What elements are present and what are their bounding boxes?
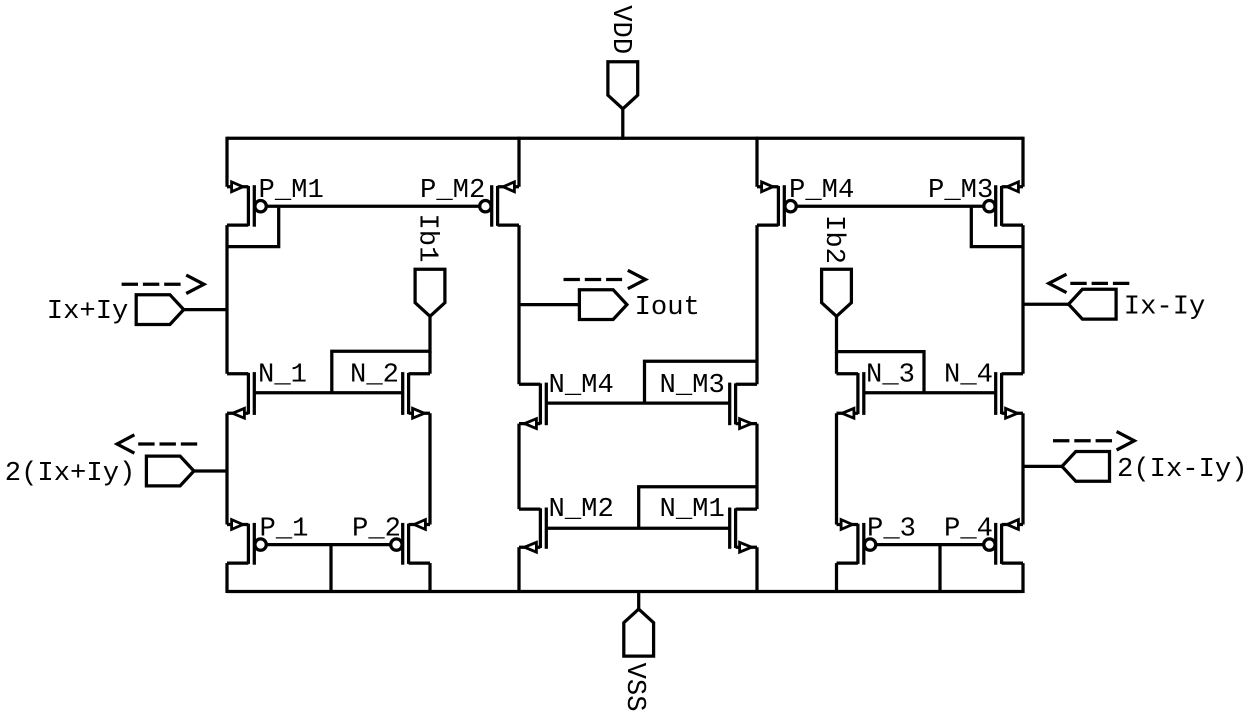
wire gate line P_3 to P_4: [876, 543, 984, 546]
wire Ib2 column: N_3 source to P_3 source: [835, 413, 838, 524]
wire gate line P_M1 to P_M2: [267, 205, 480, 208]
wire P_M1 gate-drain connection: [227, 206, 279, 246]
wire gate line P_1 to P_2: [267, 543, 391, 546]
transistor P_2: [391, 520, 430, 565]
transistor P_3: [837, 520, 876, 565]
svg-text:P_M3: P_M3: [928, 175, 993, 206]
current direction arrow out of 2(Ix+Iy): [117, 435, 200, 453]
transistor N_1: [227, 372, 254, 418]
wire center-right column: N_M3 source to N_M1 drain: [755, 424, 758, 510]
svg-text:Ix-Iy: Ix-Iy: [1124, 292, 1206, 323]
transistor N_4: [996, 372, 1023, 418]
svg-text:2(Ix+Iy): 2(Ix+Iy): [5, 458, 136, 489]
wire gate line N_M4 to N_M3: [546, 401, 729, 404]
wire gate line N_3 to N_4: [864, 391, 996, 394]
transistor N_3: [837, 372, 864, 418]
port Ib2: [822, 269, 852, 316]
wire gate line N_1 to N_2: [254, 391, 402, 394]
svg-text:P_4: P_4: [944, 513, 993, 544]
svg-text:Iout: Iout: [635, 292, 700, 323]
transistor P_4: [984, 520, 1023, 565]
svg-text:N_M4: N_M4: [549, 370, 614, 401]
svg-text:P_M2: P_M2: [420, 175, 485, 206]
port Iout: [579, 290, 627, 320]
port 2(Ix-Iy): [1062, 452, 1110, 482]
svg-text:N_M3: N_M3: [660, 370, 725, 401]
wire Iout port wire: [519, 303, 580, 306]
transistor P_M4: [757, 182, 796, 227]
svg-text:2(Ix-Iy): 2(Ix-Iy): [1117, 454, 1248, 485]
wire Ib2 column: P_3 drain to rail: [835, 563, 838, 593]
svg-text:N_4: N_4: [944, 360, 993, 391]
wire gate line N_M2 to N_M1: [546, 527, 729, 530]
transistor N_2: [403, 372, 430, 418]
svg-text:P_2: P_2: [352, 513, 401, 544]
port Ix-Iy: [1069, 289, 1117, 319]
wire right column: N_4 source to P_4 source (node 2(Ix-Iy)): [1021, 413, 1024, 524]
wire Ix+Iy port wire: [184, 308, 227, 311]
svg-text:VSS: VSS: [619, 663, 650, 712]
svg-text:P_3: P_3: [867, 513, 916, 544]
wire Ib1 stem: [428, 316, 431, 353]
transistor P_M3: [984, 182, 1023, 227]
svg-text:N_3: N_3: [866, 360, 915, 391]
svg-text:N_2: N_2: [350, 360, 399, 391]
wire N_2 gate-drain connection: [332, 351, 430, 392]
wire VSS stem: [637, 590, 640, 609]
wire center-left column: rail to P_M2 source: [517, 137, 520, 187]
current direction arrow into Ix+Iy: [122, 275, 204, 293]
svg-text:Ib1: Ib1: [411, 214, 442, 263]
port Ix+Iy: [136, 295, 184, 325]
svg-text:Ix+Iy: Ix+Iy: [47, 296, 129, 327]
wire center-right column: rail to P_M4 source: [755, 137, 758, 187]
svg-text:N_M1: N_M1: [660, 494, 725, 525]
wire VDD stem: [621, 109, 624, 140]
wire center-right column: P_M4 drain to N_M3 drain: [755, 225, 758, 384]
wire right column: rail to P_M3 source: [1021, 137, 1024, 187]
wire N_3 gate-drain connection: [837, 352, 925, 393]
wire P_3/P_4 gate to VSS rail: [938, 545, 941, 592]
wire left column: P_M1 drain to N_1 drain (node Ix+Iy): [225, 225, 228, 374]
svg-text:N_1: N_1: [258, 360, 307, 391]
wire Ix-Iy port wire: [1023, 303, 1069, 306]
wire center-left column: P_M2 drain to N_M4 drain (node Iout): [517, 225, 520, 384]
wire VDD top rail: [227, 137, 1023, 140]
wire Ib1 column: corner to N_2 drain: [428, 351, 431, 373]
svg-text:Ib2: Ib2: [818, 215, 849, 264]
transistor P_M2: [480, 182, 519, 227]
wire VSS bottom rail: [227, 590, 1023, 593]
wire left column: N_1 source to P_1 source (node 2(Ix+Iy)): [225, 413, 228, 524]
transistor P_M1: [227, 182, 266, 227]
transistor P_1: [227, 520, 266, 565]
wire gate line P_M4 to P_M3: [796, 205, 983, 208]
wire 2(Ix+Iy) port wire: [194, 469, 227, 472]
wire right column: P_M3 drain to N_4 drain (node Ix-Iy): [1021, 225, 1024, 374]
wire Ib1 column: N_2 source to P_2 source: [428, 413, 431, 524]
wire center-left column: N_M4 source to N_M2 drain: [517, 424, 520, 510]
transistor N_M4: [519, 383, 546, 429]
svg-text:P_M4: P_M4: [789, 175, 854, 206]
wire Ib1 column: P_2 drain to rail: [428, 563, 431, 593]
wire right column: P_4 drain to rail: [1021, 563, 1024, 593]
port VSS: [624, 609, 654, 656]
wire P_1/P_2 gate to VSS rail: [329, 545, 332, 592]
wire center-right column: N_M1 source to rail: [755, 547, 758, 593]
wire 2(Ix-Iy) port wire: [1023, 465, 1062, 468]
wire Ib2 column: corner to N_3 drain: [835, 352, 838, 374]
transistor N_M3: [730, 383, 757, 429]
wire Ib2 stem: [835, 316, 838, 353]
svg-text:VDD: VDD: [605, 5, 636, 54]
wire P_M3 gate-drain connection: [971, 206, 1023, 246]
port 2(Ix+Iy): [146, 456, 194, 486]
port Ib1: [415, 269, 445, 316]
current direction arrow out of 2(Ix-Iy): [1053, 432, 1134, 450]
wire left column: P_1 drain to rail: [225, 563, 228, 593]
current direction arrow out of Iout: [564, 270, 646, 288]
transistor N_M1: [730, 508, 757, 553]
svg-text:P_M1: P_M1: [259, 175, 324, 206]
wire center-left column: N_M2 source to rail: [517, 547, 520, 593]
wire N_M1 gate-drain connection: [639, 487, 757, 529]
transistor N_M2: [519, 508, 546, 553]
port VDD: [608, 62, 638, 109]
current direction arrow into Ix-Iy: [1049, 274, 1130, 292]
wire left column: rail to P_M1 source: [225, 137, 228, 187]
wire N_M3 gate-drain connection: [645, 361, 758, 403]
svg-text:N_M2: N_M2: [549, 494, 614, 525]
svg-text:P_1: P_1: [260, 513, 309, 544]
